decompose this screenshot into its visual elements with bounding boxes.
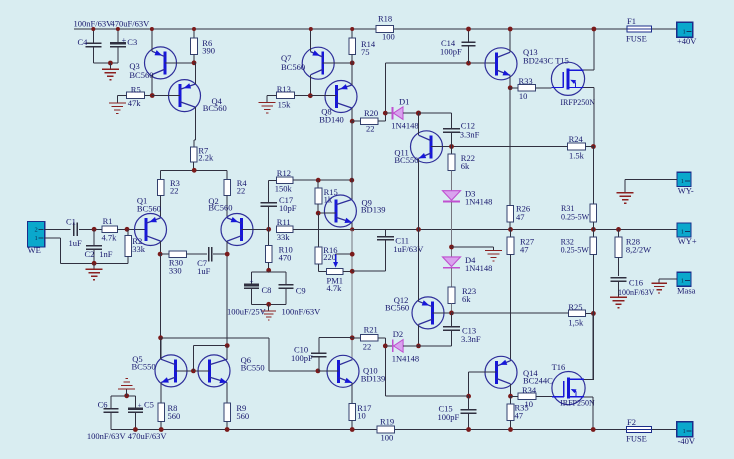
resistor R23	[448, 287, 455, 303]
wire Q11 base	[431, 146, 452, 148]
junction at (352.2,254.2)	[350, 252, 355, 257]
svg-text:BC560: BC560	[281, 62, 305, 72]
svg-text:BC550: BC550	[132, 362, 156, 372]
resistor R26	[509, 88, 511, 206]
junction at (451.5,247)	[449, 245, 454, 250]
junction at (418.5,229.4)	[416, 227, 421, 232]
svg-text:33k: 33k	[132, 244, 146, 254]
resistor R2	[127, 229, 129, 235]
junction at (310.3,95.7)	[308, 93, 313, 98]
svg-text:R12: R12	[277, 168, 291, 178]
resistor R22	[451, 147, 453, 155]
svg-text:22: 22	[366, 124, 375, 134]
junction at (593.4,146.5)	[591, 144, 596, 149]
junction at (510.2,87.8)	[508, 85, 513, 90]
resistor R3	[160, 170, 162, 179]
junction at (126.7,395.8)	[124, 393, 129, 398]
svg-text:4.7k: 4.7k	[102, 233, 118, 243]
wire ground tap	[452, 246, 494, 248]
junction at (268.7,304.3)	[266, 302, 271, 307]
ground (C5/C6, inverted)	[126, 389, 128, 396]
wire Q9 base	[318, 212, 336, 214]
svg-text:C4: C4	[78, 37, 89, 47]
junction at (194,29)	[192, 27, 196, 31]
svg-text:BD139: BD139	[361, 373, 386, 383]
junction at (151.9,29)	[150, 27, 154, 31]
svg-text:1k: 1k	[324, 194, 333, 204]
svg-text:1: 1	[34, 235, 37, 242]
junction at (510.5,429.5)	[508, 427, 513, 432]
junction at (510.5,396.2)	[508, 394, 513, 399]
svg-text:4.7k: 4.7k	[327, 283, 343, 293]
svg-text:C3: C3	[127, 37, 137, 47]
svg-text:22: 22	[363, 342, 372, 352]
transistor Q9	[324, 195, 356, 227]
junction at (451.5,312.9)	[449, 311, 454, 316]
svg-text:1N4148: 1N4148	[391, 120, 418, 130]
svg-text:1N4148: 1N4148	[392, 354, 419, 364]
svg-text:F1: F1	[627, 16, 636, 26]
wire Q4 collector to R7	[195, 107, 197, 140]
junction at (194.2,170.3)	[192, 168, 197, 173]
junction at (468.6,429.5)	[466, 427, 471, 432]
svg-text:47: 47	[516, 212, 525, 222]
wire Q14 collector	[510, 384, 512, 396]
junction at (318.2,180.2)	[316, 178, 321, 183]
wire R13 left + ground	[267, 94, 277, 96]
svg-text:3.3nF: 3.3nF	[460, 129, 480, 139]
ground (C3/C4)	[109, 63, 111, 69]
junction at (352.2,271.3)	[350, 269, 355, 274]
diode D2 (1N4148)	[385, 345, 392, 347]
wire Q11 collector up	[418, 113, 420, 135]
wire Q10 emitter down	[351, 383, 353, 404]
resistor R8	[158, 403, 165, 421]
wire R27 to Q14 emitter	[510, 255, 512, 361]
mosfet T16 (IRFP250N)	[552, 372, 585, 405]
wire R7 to R3/R4 split	[193, 162, 195, 170]
svg-text:1: 1	[681, 228, 684, 235]
wire Q7 base to R14 node	[323, 62, 353, 64]
wire Q12 collector down	[418, 325, 420, 346]
svg-text:10: 10	[357, 410, 366, 420]
svg-text:390: 390	[202, 45, 215, 55]
wire R27 chain	[510, 229, 512, 237]
resistor R16	[318, 213, 320, 247]
svg-text:1: 1	[682, 428, 685, 435]
junction at (352.2,337.8)	[350, 335, 355, 340]
svg-text:47: 47	[520, 244, 529, 254]
junction at (468.6,396.2)	[466, 394, 471, 399]
svg-text:6k: 6k	[461, 161, 470, 171]
svg-text:100pF: 100pF	[291, 353, 313, 363]
junction at (117.9,29)	[116, 27, 120, 31]
junction at (127,229.3)	[125, 227, 130, 232]
wire R20 right up to D1 node	[378, 120, 386, 122]
svg-text:C8: C8	[262, 285, 272, 295]
svg-text:WE: WE	[28, 245, 41, 255]
svg-text:R13: R13	[277, 84, 291, 94]
svg-text:R33: R33	[519, 76, 533, 86]
wire Q5 collector	[160, 338, 162, 360]
resistor R32	[592, 229, 594, 237]
transistor Q2	[221, 214, 253, 246]
resistor R12	[276, 177, 293, 184]
wire Q2 base to R11 node	[242, 228, 269, 230]
wire Q3 base to R6 node	[165, 62, 194, 64]
svg-text:IRFP250N: IRFP250N	[560, 98, 595, 107]
svg-text:470uF/63V: 470uF/63V	[111, 19, 151, 29]
wire D4 to R23	[451, 268, 453, 287]
junction at (94.1,229.3)	[92, 227, 97, 232]
svg-text:FUSE: FUSE	[626, 34, 647, 44]
wire Q14 base	[469, 371, 497, 373]
wire Q2 collector	[226, 241, 228, 346]
wire to Q10 base	[161, 337, 269, 339]
svg-text:1uF: 1uF	[69, 238, 83, 248]
ground (C8/C9)	[268, 304, 270, 311]
wire Q1-col to Q5-col	[160, 254, 162, 359]
wire R1 to Q1 base	[118, 228, 146, 230]
wire Q4 emitter up	[195, 63, 197, 84]
svg-text:1: 1	[681, 278, 684, 285]
svg-text:1,5k: 1,5k	[568, 317, 584, 327]
wire R3 to Q1 emitter	[160, 195, 162, 218]
wire Q6 emitter to R9	[226, 383, 228, 404]
resistor R14	[351, 29, 353, 38]
junction at (418.5,345.9)	[416, 344, 421, 349]
wire Q6 collector	[226, 346, 228, 360]
wire R24 left to Q11 base node	[452, 146, 568, 148]
capacitor C8 (100uF/25V)	[251, 272, 253, 284]
wire D3 to ground tap	[451, 202, 453, 257]
svg-text:470uF/63V: 470uF/63V	[128, 431, 168, 441]
junction at (318.2,213.1)	[316, 211, 321, 216]
transistor Q14	[485, 356, 517, 388]
svg-text:0.25-5W: 0.25-5W	[561, 213, 590, 222]
svg-text:100nF/63V: 100nF/63V	[282, 307, 322, 317]
wire T15 drain to rail	[584, 69, 594, 71]
wire bottom -40V rail	[111, 429, 626, 431]
svg-text:2: 2	[34, 226, 37, 233]
svg-text:+: +	[138, 401, 142, 409]
junction at (593.9,29)	[592, 27, 597, 32]
wire Q9 emitter to main line	[351, 223, 353, 230]
svg-text:C1: C1	[66, 216, 76, 226]
junction at (194,62.8)	[192, 60, 197, 65]
svg-text:15k: 15k	[278, 100, 292, 110]
svg-text:1nF: 1nF	[99, 249, 113, 259]
resistor R9	[224, 403, 231, 421]
transistor Q1	[135, 214, 167, 246]
wire Q5/Q6 base tie	[176, 370, 210, 372]
svg-text:R25: R25	[568, 302, 582, 312]
junction at (110.4,63)	[108, 61, 113, 66]
svg-text:IRFP250N: IRFP250N	[560, 399, 595, 408]
junction at (317.9,370.9)	[316, 369, 321, 374]
wire top +40V rail	[74, 28, 627, 30]
capacitor C3 (470uF/63V)	[117, 29, 119, 43]
connector WY+	[677, 223, 691, 237]
wire T16 drain up	[584, 378, 593, 380]
wire T15 source to R31	[592, 147, 594, 204]
junction at (351.8,180.2)	[349, 178, 354, 183]
ground (D3/D4)	[485, 249, 502, 251]
resistor R19 (in rail)	[377, 426, 394, 433]
junction at (451.5,146.5)	[449, 144, 454, 149]
svg-text:D2: D2	[393, 329, 403, 339]
svg-text:3.3nF: 3.3nF	[461, 334, 481, 344]
svg-text:T16: T16	[552, 362, 566, 372]
wire R10 to C8/C9	[268, 263, 270, 272]
junction at (593.2,429.5)	[591, 427, 596, 432]
capacitor C4	[92, 29, 94, 43]
wire C1 to R1	[79, 228, 102, 230]
resistor R11	[276, 226, 293, 233]
svg-text:100: 100	[381, 433, 394, 443]
junction at (227.2,345.6)	[225, 343, 230, 348]
svg-text:-40V: -40V	[678, 436, 696, 446]
svg-text:C6: C6	[98, 400, 108, 410]
resistor R34	[518, 393, 536, 400]
capacitor C15	[468, 396, 470, 409]
svg-text:470: 470	[279, 252, 292, 262]
transistor Q10	[327, 355, 359, 387]
junction at (227.2,254.1)	[225, 252, 230, 257]
fuse F1	[627, 26, 651, 32]
resistor R30	[169, 251, 187, 258]
svg-text:1: 1	[681, 178, 684, 185]
capacitor C13	[451, 313, 453, 326]
junction at (352.2,229.4)	[350, 227, 354, 231]
resistor R28	[618, 229, 620, 237]
ground (WY-)	[617, 192, 634, 194]
svg-text:R11: R11	[277, 217, 291, 227]
svg-text:1N4148: 1N4148	[465, 196, 492, 206]
svg-text:FUSE: FUSE	[626, 433, 647, 443]
transistor Q12	[412, 297, 444, 329]
svg-text:R34: R34	[522, 385, 537, 395]
wire Q13 collector to rail	[509, 29, 511, 52]
wire WE pin2 to C1	[45, 228, 71, 230]
resistor R6	[193, 29, 195, 38]
junction at (385.3,113.1)	[383, 111, 388, 116]
junction at (618.5,229.4)	[616, 227, 621, 232]
transistor Q11	[411, 131, 443, 163]
junction at (193.4,370.9)	[191, 369, 196, 374]
wire Q14 base node from D2	[385, 395, 468, 397]
svg-text:2.2k: 2.2k	[198, 153, 214, 163]
wire Q1 collector	[160, 241, 162, 254]
wire Q8 emitter up	[351, 63, 353, 85]
resistor R27	[507, 237, 514, 255]
svg-text:BC560: BC560	[385, 303, 409, 313]
junction at (268.7,229.3)	[266, 227, 271, 232]
wire Q8 collector down	[351, 108, 353, 121]
svg-text:F2: F2	[627, 417, 636, 427]
svg-text:R19: R19	[380, 417, 394, 427]
wire R11 right to main line	[293, 228, 352, 230]
resistor R21	[361, 335, 378, 342]
svg-text:10pF: 10pF	[279, 203, 297, 213]
svg-text:150k: 150k	[275, 183, 293, 193]
wire Q8-col node to R12 node	[351, 121, 353, 180]
svg-text:100uF/25V: 100uF/25V	[227, 307, 267, 317]
wire C8/C9 top tie	[252, 271, 286, 273]
svg-text:R21: R21	[364, 324, 378, 334]
svg-text:47: 47	[515, 410, 524, 420]
wire VAS collector	[351, 180, 353, 200]
svg-text:BC550: BC550	[394, 155, 418, 165]
svg-text:WY+: WY+	[678, 236, 697, 246]
capacitor C9	[285, 272, 287, 284]
connector Masa	[677, 272, 691, 286]
junction at (135.4,429.5)	[133, 427, 138, 432]
resistor R18 (in rail)	[376, 26, 394, 33]
junction at (268.7,270.3)	[266, 268, 271, 273]
capacitor C2	[93, 229, 95, 245]
svg-text:8,2/2W: 8,2/2W	[626, 245, 651, 255]
wire WY- to ground	[625, 179, 677, 181]
transistor Q7	[302, 47, 334, 79]
svg-text:C5: C5	[144, 400, 154, 410]
svg-text:560: 560	[168, 411, 181, 421]
wire Q5 emitter to R8	[160, 383, 162, 404]
resistor R7	[190, 147, 197, 162]
svg-text:R20: R20	[364, 108, 378, 118]
svg-text:1uF: 1uF	[197, 266, 211, 276]
ground (Masa)	[651, 282, 667, 284]
resistor R31	[590, 204, 597, 222]
resistor R33	[518, 85, 536, 92]
connector WE (input)	[27, 222, 44, 248]
wire Q3 emitter to rail	[151, 29, 153, 51]
junction at (418.5,113.1)	[416, 111, 421, 116]
ground (input)	[93, 263, 95, 269]
wire R32 to R25/T16	[592, 255, 594, 314]
wire C8/C9 bottom tie	[252, 303, 286, 305]
connector WY-	[677, 172, 691, 186]
junction at (161.2,429.5)	[159, 427, 164, 432]
wire Q13 base line	[385, 62, 496, 64]
svg-text:560: 560	[236, 411, 249, 421]
svg-text:WY-: WY-	[678, 185, 694, 195]
diode D4 (1N4148)	[443, 257, 461, 267]
svg-text:10: 10	[519, 91, 528, 101]
junction at (468.5,63.2)	[466, 61, 471, 66]
transistor Q3	[145, 47, 177, 79]
svg-text:100pF: 100pF	[438, 412, 460, 422]
wire C4-C3 tie	[93, 62, 118, 64]
junction at (510.2,29)	[508, 27, 513, 32]
wire Q4 base	[152, 95, 180, 97]
ground (C16)	[610, 296, 627, 298]
junction at (593.4,313.4)	[591, 311, 596, 316]
transistor Q4	[169, 80, 201, 112]
svg-text:R1: R1	[103, 216, 113, 226]
wire R12 right	[293, 179, 352, 181]
wire R4 to Q2 emitter	[226, 195, 228, 218]
wire Q11 emitter to main line	[418, 158, 420, 229]
wire R5 left + ground	[117, 94, 126, 96]
junction at (352.2,29)	[350, 27, 354, 31]
capacitor C1	[73, 223, 75, 237]
resistor R13	[277, 92, 295, 99]
svg-text:100nF/63V: 100nF/63V	[87, 431, 127, 441]
resistor R24	[568, 143, 586, 150]
transistor Q13	[485, 48, 517, 80]
resistor R10	[268, 229, 270, 245]
resistor R1	[102, 226, 118, 233]
svg-text:BC560: BC560	[208, 203, 232, 213]
capacitor C5 (470uF/63V)	[134, 396, 136, 409]
svg-text:100pF: 100pF	[440, 46, 462, 56]
fuse F2	[627, 426, 652, 432]
capacitor C12	[419, 112, 452, 114]
wire T16 source down	[584, 396, 593, 398]
wire Q9 emitter chain down	[351, 229, 353, 360]
wire Q7 collector down	[310, 75, 312, 96]
svg-text:D1: D1	[399, 97, 409, 107]
junction at (352.2,121.2)	[350, 119, 355, 124]
wire R25 left to Q12 base node	[452, 312, 569, 314]
resistor R4	[226, 170, 228, 179]
junction at (94.1,263.3)	[92, 261, 97, 266]
svg-text:BC560: BC560	[203, 103, 227, 113]
svg-text:BC550: BC550	[241, 362, 265, 372]
svg-text:BC560: BC560	[137, 204, 161, 214]
wire Q3 collector down	[151, 75, 153, 96]
svg-text:1: 1	[682, 28, 685, 35]
svg-text:1N4148: 1N4148	[465, 263, 492, 273]
transistor Q5	[155, 355, 187, 387]
junction at (160.6,337.8)	[158, 335, 163, 340]
junction at (593.4,229.4)	[591, 227, 596, 232]
svg-text:100: 100	[382, 32, 395, 42]
resistor R25	[568, 310, 585, 317]
diode D3 (1N4148)	[443, 191, 461, 201]
junction at (385.3,345.9)	[383, 344, 388, 349]
svg-text:R24: R24	[569, 134, 584, 144]
wire C5/C6 top tie	[111, 395, 135, 397]
svg-text:220: 220	[323, 252, 336, 262]
resistor R5	[127, 92, 145, 99]
svg-text:BD140: BD140	[319, 115, 344, 125]
capacitor C16	[618, 258, 620, 277]
wire Q12 base	[433, 312, 452, 314]
junction at (227.1,429.5)	[225, 427, 230, 432]
resistor R17	[349, 404, 356, 421]
capacitor C6	[110, 396, 112, 409]
junction at (510.5,229.4)	[508, 227, 513, 232]
wire input return	[45, 237, 61, 239]
connector +40V	[677, 22, 693, 37]
junction at (93.3,29)	[91, 27, 95, 31]
wire Q10 base	[318, 370, 339, 372]
svg-text:BD139: BD139	[361, 204, 386, 214]
junction at (352.2,429.5)	[350, 427, 355, 432]
connector -40V	[677, 422, 693, 437]
svg-text:C9: C9	[296, 285, 306, 295]
transistor Q6	[198, 355, 230, 387]
svg-text:R18: R18	[378, 14, 392, 24]
ground (R13)	[259, 102, 276, 104]
capacitor C14	[468, 29, 470, 42]
svg-text:0.25-5W: 0.25-5W	[561, 246, 590, 255]
svg-text:+: +	[122, 35, 127, 45]
junction at (468.5,29)	[466, 27, 471, 32]
wire Q7 emitter to rail	[310, 29, 312, 52]
